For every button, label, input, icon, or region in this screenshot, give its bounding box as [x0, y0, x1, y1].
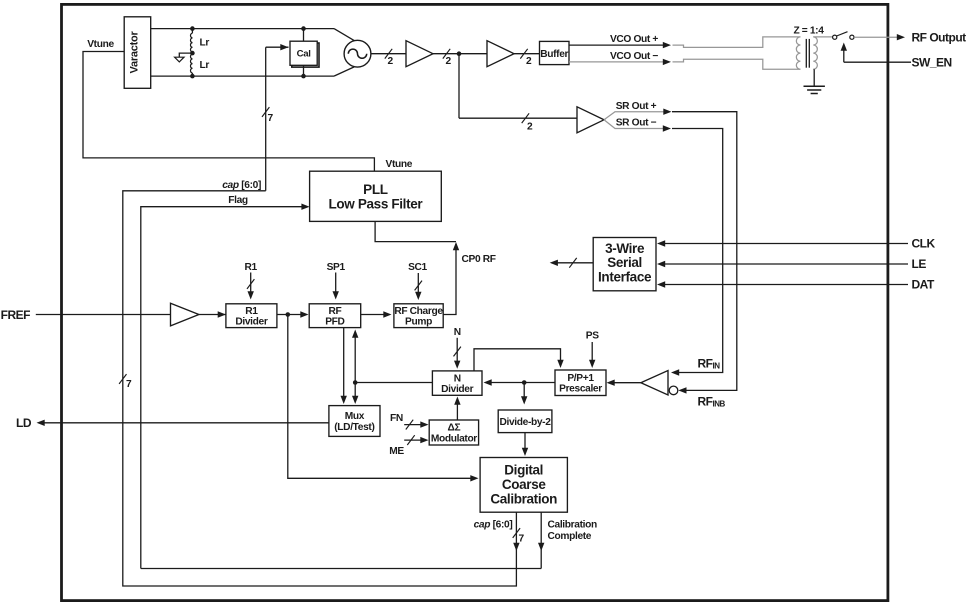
- svg-text:Z = 1:4: Z = 1:4: [793, 26, 824, 37]
- svg-text:Prescaler: Prescaler: [559, 384, 602, 395]
- svg-text:SC1: SC1: [408, 262, 427, 273]
- svg-text:CLK: CLK: [912, 237, 936, 251]
- svg-text:SP1: SP1: [327, 262, 346, 273]
- svg-text:R1: R1: [245, 262, 258, 273]
- svg-text:PS: PS: [586, 331, 599, 342]
- svg-text:DAT: DAT: [912, 278, 935, 292]
- svg-text:SW_EN: SW_EN: [912, 55, 952, 69]
- svg-text:Coarse: Coarse: [502, 477, 547, 492]
- svg-text:Divide-by-2: Divide-by-2: [499, 417, 551, 428]
- svg-text:3-Wire: 3-Wire: [605, 241, 645, 256]
- svg-text:Modulator: Modulator: [431, 433, 477, 444]
- svg-text:R1: R1: [245, 306, 258, 317]
- svg-text:N: N: [454, 327, 461, 338]
- svg-text:Pump: Pump: [405, 317, 432, 328]
- svg-text:ΔΣ: ΔΣ: [448, 422, 461, 433]
- svg-text:cap [6:0]: cap [6:0]: [474, 520, 513, 531]
- svg-text:FN: FN: [390, 413, 403, 424]
- svg-text:P/P+1: P/P+1: [567, 373, 594, 384]
- svg-text:SR Out +: SR Out +: [616, 101, 657, 112]
- svg-text:Divider: Divider: [441, 384, 473, 395]
- svg-text:PLL: PLL: [363, 182, 388, 197]
- svg-text:Calibration: Calibration: [490, 492, 557, 507]
- svg-text:LD: LD: [16, 416, 32, 430]
- svg-text:Vtune: Vtune: [87, 39, 114, 50]
- svg-text:2: 2: [526, 56, 532, 67]
- svg-text:Flag: Flag: [228, 195, 248, 206]
- svg-text:ME: ME: [389, 446, 404, 457]
- svg-text:Interface: Interface: [598, 270, 652, 285]
- svg-text:2: 2: [527, 122, 533, 133]
- svg-text:Varactor: Varactor: [129, 31, 141, 74]
- svg-text:(LD/Test): (LD/Test): [334, 422, 374, 433]
- svg-text:7: 7: [268, 113, 274, 124]
- svg-text:RF Charge: RF Charge: [394, 306, 443, 317]
- svg-text:N: N: [454, 373, 461, 384]
- svg-text:Divider: Divider: [235, 317, 267, 328]
- svg-text:PFD: PFD: [325, 317, 344, 328]
- svg-text:RF Output: RF Output: [912, 30, 967, 44]
- svg-text:Calibration: Calibration: [548, 520, 597, 531]
- svg-text:Mux: Mux: [345, 411, 365, 422]
- svg-text:SR Out −: SR Out −: [616, 118, 657, 129]
- svg-text:Lr: Lr: [200, 38, 210, 49]
- svg-text:Digital: Digital: [504, 462, 543, 477]
- svg-text:Low Pass Filter: Low Pass Filter: [329, 196, 424, 211]
- svg-text:VCO Out −: VCO Out −: [610, 51, 658, 62]
- svg-text:7: 7: [126, 379, 132, 390]
- svg-text:2: 2: [446, 56, 452, 67]
- svg-text:2: 2: [388, 56, 394, 67]
- svg-text:Serial: Serial: [607, 255, 642, 270]
- svg-text:Complete: Complete: [548, 531, 592, 542]
- svg-text:Vtune: Vtune: [386, 159, 413, 170]
- svg-text:FREF: FREF: [1, 308, 31, 322]
- svg-text:Lr: Lr: [200, 60, 210, 71]
- svg-text:7: 7: [519, 534, 525, 545]
- svg-text:Cal: Cal: [297, 49, 311, 60]
- svg-text:VCO Out +: VCO Out +: [610, 34, 658, 45]
- svg-text:Buffer: Buffer: [540, 49, 568, 60]
- svg-text:CP0 RF: CP0 RF: [462, 254, 496, 265]
- svg-text:RF: RF: [328, 306, 341, 317]
- svg-text:cap [6:0]: cap [6:0]: [222, 180, 261, 191]
- svg-text:LE: LE: [912, 257, 927, 271]
